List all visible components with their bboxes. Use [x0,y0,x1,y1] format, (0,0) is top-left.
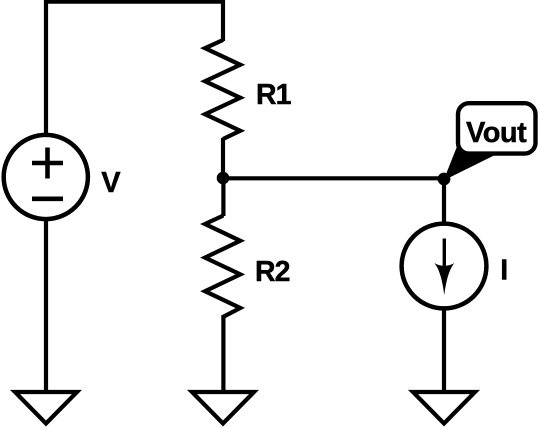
wire top to R1 [221,0,225,41]
callout box Vout [458,103,536,153]
wire top horizontal [44,0,223,4]
wire node to Vout node [223,176,444,180]
callout pointer to Vout [444,147,501,181]
wire I source to ground [442,309,446,392]
ground (right) [413,392,475,424]
wire node to R2 [221,178,225,216]
svg-text:R2: R2 [255,256,290,288]
voltage source V [4,135,88,219]
resistor R1 [205,40,240,139]
current source I [402,224,487,309]
svg-text:V: V [101,167,121,199]
resistor R2 [205,216,240,317]
wire left vertical to V source [44,0,48,133]
node Vout junction [438,173,451,186]
wire R2 to ground [221,315,225,392]
svg-text:Vout: Vout [466,117,527,149]
wire V source to ground [44,219,48,392]
wire Vout node to I source [442,178,446,223]
node junction (R1/R2) [217,172,230,185]
ground (middle) [192,392,254,424]
svg-text:R1: R1 [256,79,292,111]
wire R1 to node [221,138,225,180]
ground (left) [15,392,77,424]
svg-text:I: I [500,255,508,287]
